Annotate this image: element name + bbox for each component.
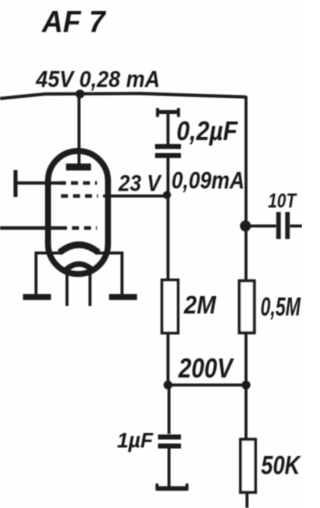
wire: 200V bus between node D and node E [168, 384, 248, 387]
wire: cathode right lead [97, 253, 122, 295]
ground terminal bar under C2 [156, 484, 188, 491]
svg-text:2M: 2M [183, 292, 217, 320]
label 45V 0,28 mA [35, 66, 160, 92]
wire: filament lead right [89, 271, 92, 306]
svg-text:0,5M: 0,5M [261, 294, 302, 322]
tube V1 grid g2 (dashed) [61, 194, 98, 198]
wire: C1 bottom lead to node B [167, 158, 170, 195]
wire: R1 top lead from node B [167, 196, 170, 280]
svg-text:0,09mA: 0,09mA [172, 168, 245, 195]
capacitor C1 0,2uF top terminal T-bar [157, 108, 179, 117]
label 50K [261, 452, 301, 480]
wire: anode lead from node A into tube [78, 95, 81, 165]
wire: grid g2 lead to node B [103, 195, 167, 198]
node D: junction R1 / C2 / bus [164, 381, 173, 390]
node A: junction top rail / anode lead [76, 90, 85, 99]
wire: R3 bottom lead to bottom edge [246, 493, 249, 508]
node B: junction grid2 wire / C1 / R1 [163, 191, 171, 199]
capacitor C1 0,2uF plates [155, 147, 181, 156]
wire: R1 bottom lead to node D [167, 334, 170, 385]
wire: C1 top lead [167, 113, 170, 144]
resistor R1 2M body [162, 280, 178, 333]
label 0,2uF [177, 116, 239, 146]
capacitor C2 1uF plates [158, 437, 181, 446]
wire: C2 bottom lead [168, 448, 171, 487]
terminal: cathode right bar [109, 294, 137, 300]
tube V1 cathode arc [60, 245, 99, 253]
wire: grid g1 lead to left terminal [16, 181, 59, 184]
label 2M [183, 292, 217, 320]
tube V1 envelope (AF7) [48, 151, 108, 274]
svg-text:45V 0,28 mA: 45V 0,28 mA [35, 66, 160, 92]
svg-text:50K: 50K [261, 452, 301, 480]
wire: C2 top lead from node D [168, 386, 171, 434]
svg-text:AF 7: AF 7 [41, 4, 107, 39]
svg-text:1µF: 1µF [117, 430, 154, 453]
wire: R2 bottom lead to node E [245, 333, 248, 385]
svg-text:200V: 200V [178, 353, 235, 384]
svg-text:10T: 10T [268, 190, 297, 213]
wire: R3 top lead from node E [245, 386, 248, 438]
label 0,09mA [172, 168, 245, 195]
tube V1 grid g1 (dashed) [59, 181, 97, 185]
tube V1 filament arc [64, 264, 94, 272]
label AF 7 (tube type) [41, 4, 107, 39]
label 10T [268, 190, 297, 213]
tube V1 anode plate bar [66, 164, 91, 171]
label 200V [178, 353, 235, 384]
capacitor C3 10T plates [279, 212, 288, 239]
wire: grid g3 lead to left edge [0, 226, 60, 230]
wire: C3 output lead to right edge [290, 225, 302, 228]
wire: right rail vertical (top rail to 0,5M) [245, 96, 248, 280]
node C: junction right rail / C3 [240, 221, 251, 232]
label 0,5M [261, 294, 302, 322]
label 1uF [117, 430, 154, 453]
wire: top supply rail horizontal [0, 94, 246, 99]
resistor R2 0,5M body [239, 281, 254, 333]
svg-text:0,2µF: 0,2µF [177, 116, 239, 146]
tube V1 grid g3 (dashed) [60, 226, 97, 230]
wire: lead node C to C3 [248, 225, 276, 228]
label 23 V [118, 170, 163, 196]
terminal: grid input stub bar [14, 170, 18, 197]
svg-text:23 V: 23 V [118, 170, 163, 196]
resistor R3 50K body [241, 439, 256, 492]
terminal: cathode left bar [23, 294, 51, 300]
wire: cathode left lead [36, 253, 61, 295]
node E: junction bus / right rail / R3 [242, 381, 251, 390]
wire: filament lead left [66, 271, 69, 306]
